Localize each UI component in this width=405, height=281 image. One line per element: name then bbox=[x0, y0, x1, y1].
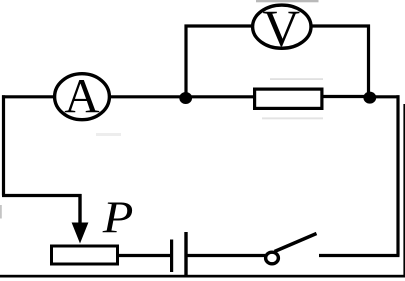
artifact: grey mark left edge bbox=[0, 205, 2, 219]
artifact: faint grey bar below resistor bbox=[262, 117, 323, 119]
resistor R1 bbox=[255, 89, 322, 108]
wire: left vertical from node A down to junction bbox=[184, 25, 187, 99]
voltmeter U2 ellipse bbox=[253, 5, 311, 48]
artifact: right edge line bbox=[403, 104, 405, 276]
wire: bottom right horizontal to switch bbox=[319, 254, 400, 257]
wire: resistor to right junction bbox=[323, 95, 370, 98]
rheostat P body bbox=[52, 246, 118, 264]
battery B1 positive plate (long) bbox=[184, 232, 187, 277]
wire: battery to switch bbox=[186, 254, 265, 257]
wire: right vertical from top wire down to junction bbox=[367, 25, 370, 98]
wire: far left vertical down bbox=[2, 95, 5, 195]
wire: rheostat to battery bbox=[118, 254, 170, 257]
svg-text:P: P bbox=[102, 193, 134, 243]
svg-text:V: V bbox=[263, 0, 301, 57]
artifact: bottom border line bbox=[0, 275, 405, 278]
artifact: faint smudge below ammeter bbox=[96, 133, 121, 136]
rheostat wiper arrow head bbox=[72, 223, 89, 244]
wire: left junction to resistor bbox=[186, 95, 254, 98]
wire: lower left horizontal bbox=[2, 194, 82, 197]
wire: far left horizontal to ammeter bbox=[2, 95, 54, 98]
junction node dot right bbox=[363, 92, 376, 104]
switch S1 lever bbox=[275, 234, 317, 252]
wire: top right horizontal from voltmeter bbox=[312, 24, 371, 27]
artifact: grey bar top edge bbox=[256, 0, 319, 2]
svg-text:A: A bbox=[64, 68, 100, 123]
switch S1 pivot circle bbox=[266, 252, 279, 264]
ammeter U1 ellipse bbox=[55, 74, 110, 120]
wire: ammeter to left junction bbox=[110, 95, 186, 98]
artifact: faint grey bar above resistor bbox=[270, 78, 323, 80]
battery B1 negative plate (short) bbox=[170, 240, 173, 273]
wire: right junction to right edge bbox=[370, 95, 400, 98]
wire: right vertical down bbox=[396, 95, 399, 255]
wire: top left horizontal to voltmeter bbox=[185, 24, 253, 27]
junction node dot left bbox=[179, 92, 192, 104]
rheostat wiper arrow shaft bbox=[78, 194, 81, 226]
